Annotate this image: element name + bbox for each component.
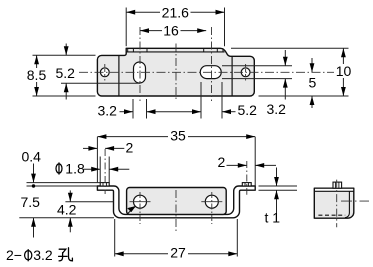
left boss on tab: [100, 183, 109, 186]
dim 4.2 bottom arrow: [69, 218, 71, 233]
left obround vertical centerline: [139, 27, 141, 101]
sensor body gray box: [127, 188, 227, 215]
dim 2 left: arrow outside left: [83, 147, 97, 149]
dim 21.6 extension lines: [125, 8, 127, 47]
right obround hole (horizontal stadium): [200, 66, 221, 79]
dim 3.2 right: obround top/bottom extension lines: [222, 65, 292, 67]
dim 35 label: [168, 129, 188, 143]
dim phi1.8 right arrow: [109, 168, 129, 170]
svg-text:5.2: 5.2: [238, 102, 258, 118]
leader arrow to left hole: [127, 206, 135, 214]
left hole crosshairs: [130, 201, 151, 203]
side view hidden strip line: [318, 214, 345, 216]
side view vertical centerline: [336, 180, 338, 228]
dim 3.2 left (below part): extension lines: [132, 99, 134, 119]
dim 5 top arrow (points at centerline): [311, 58, 313, 72]
dim 8.5 label: [25, 68, 49, 82]
svg-text:2: 2: [126, 140, 134, 156]
svg-text:0.4: 0.4: [22, 149, 42, 165]
svg-text:1.8: 1.8: [65, 160, 85, 176]
dim 5.2 left top arrow: [65, 44, 67, 56]
svg-text:21.6: 21.6: [162, 4, 189, 20]
side view body: [314, 188, 354, 218]
side view horizontal centerline: [341, 200, 369, 202]
dim 10 top extension line (lip top level): [231, 47, 349, 49]
right boss centerline: [246, 161, 248, 195]
dim phi1.8 left arrow: [84, 168, 101, 170]
dim phi1.8 extension lines (boss edges): [99, 157, 101, 183]
dim phi1.8 label: [56, 162, 62, 174]
dim 7.5 dot terminator: [32, 184, 35, 187]
bracket Z-profile outline: [97, 186, 255, 218]
right ear hole vertical centerline: [245, 64, 247, 81]
right obround vertical centerline: [211, 27, 213, 101]
top view right bend line: [231, 56, 233, 96]
dim 16 label: [162, 24, 181, 38]
tab top extension line: [27, 185, 98, 187]
svg-text:5.2: 5.2: [56, 65, 76, 81]
dim 35 right extension line (tab right edge): [254, 137, 256, 191]
bottom extension line (strip bottom): [19, 217, 114, 219]
dim 4.2 top arrow: [69, 190, 71, 201]
dim 3.2 left arrow: [120, 111, 134, 113]
top view left bend line: [118, 55, 120, 96]
svg-text:2−: 2−: [6, 247, 22, 263]
left boss centerline: [104, 149, 106, 194]
dim 35 left extension line (tab left edge): [96, 137, 98, 183]
svg-text:8.5: 8.5: [27, 67, 47, 83]
dim 21.6 line: [126, 11, 224, 13]
dim 10/5 bottom extension line: [259, 95, 349, 97]
dim 27 extension lines: [114, 219, 116, 257]
left ear round hole: [100, 68, 109, 77]
hole centerline extension (4.2 ref): [65, 201, 113, 203]
dim 5.2 bottom-right extension lines: [200, 82, 202, 119]
svg-text:10: 10: [336, 63, 352, 79]
svg-text:7.5: 7.5: [21, 194, 41, 210]
svg-text:5: 5: [309, 75, 317, 91]
top view horizontal centerline: [79, 71, 341, 73]
svg-text:2: 2: [218, 154, 226, 170]
dim 0.4 arrow down: [33, 164, 35, 183]
front view center vertical centerline: [175, 190, 177, 233]
right hole crosshairs: [201, 201, 222, 203]
dim t1 bottom arrow: [276, 190, 278, 214]
dim 2 left: arrow outside right: [105, 147, 124, 149]
dim 27 line: [115, 253, 238, 255]
dim t1 top arrow: [276, 168, 278, 187]
dim 10 line: [342, 48, 344, 96]
svg-text:27: 27: [170, 245, 186, 261]
side view web inner line: [345, 191, 350, 217]
dim 27 label: [168, 246, 188, 260]
dim 21.6 label: [160, 6, 191, 20]
dim 2 right: arrow outside right: [255, 164, 276, 166]
dim 5 bottom arrow: [311, 96, 313, 108]
side view tab bottom line: [314, 190, 354, 192]
boss top extension line: [27, 182, 101, 184]
side view tab band (white): [315, 189, 353, 191]
hand-drawn kanji 'kong' (hole): [59, 248, 73, 261]
right ear round hole: [241, 68, 250, 77]
left obround hole (vertical stadium): [134, 62, 146, 83]
dim 7.5 bottom arrow: [33, 218, 35, 238]
left phi3.2 hole: [134, 195, 147, 208]
right phi3.2 hole: [205, 195, 218, 208]
dim 8.5 extension bottom line: [33, 95, 96, 97]
right boss on tab: [242, 183, 251, 186]
top view part body outline: [97, 48, 254, 96]
dim 5.2 left bottom arrow: [65, 83, 67, 99]
dim 3.2 right bottom arrow: [284, 79, 286, 100]
dim 3.2 right top arrow: [284, 50, 286, 66]
dim 5.2 bottom-right arrow: [222, 111, 236, 113]
dim 10 label: [334, 64, 353, 78]
dim 8.5 extension top line: [33, 54, 96, 56]
lip ticks: [128, 48, 223, 52]
lip inner line: [126, 51, 224, 53]
svg-text:35: 35: [170, 128, 186, 144]
dim 5.2 left: obround bottom extension line: [61, 82, 140, 84]
dim 2 right: arrow outside left: [227, 164, 247, 166]
svg-text:3.2: 3.2: [33, 247, 53, 263]
top view center vertical centerline: [175, 44, 177, 101]
svg-text:3.2: 3.2: [267, 101, 287, 117]
dim 16 line: [140, 30, 206, 32]
dim 8.5 line: [36, 55, 38, 96]
svg-text:4.2: 4.2: [57, 202, 77, 218]
left ear hole vertical centerline: [104, 64, 106, 81]
svg-text:16: 16: [163, 22, 179, 38]
dim middle shared tail with two arrows: [147, 111, 202, 113]
svg-text:t 1: t 1: [265, 210, 281, 226]
dim t1 extension lines: [259, 185, 298, 187]
dim 35 line: [97, 136, 255, 138]
side view boss: [333, 182, 342, 188]
svg-text:3.2: 3.2: [98, 103, 118, 119]
